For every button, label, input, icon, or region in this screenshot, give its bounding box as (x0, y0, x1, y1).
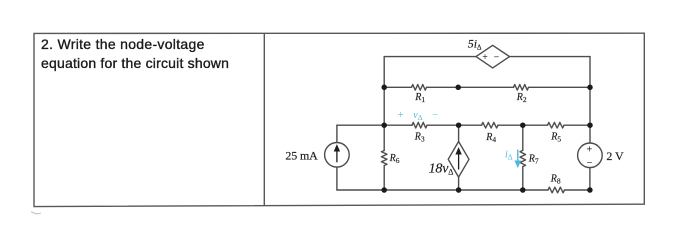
wire rail3 segment c (498, 124, 548, 126)
resistor R5 (548, 122, 565, 128)
wire R6 branch top (383, 125, 385, 150)
svg-text:iΔ: iΔ (505, 150, 513, 162)
wire rail2 segment b (427, 86, 514, 88)
wire right vertical upper (589, 57, 591, 143)
wire bottom rail left (337, 189, 548, 191)
junction node rail2 mid (455, 85, 461, 91)
wire top rail left (384, 56, 476, 58)
wire 18vΔ branch bottom (458, 177, 460, 190)
wire rail3 segment d (564, 124, 590, 126)
current source I1 25 mA circle (325, 143, 350, 168)
svg-text:2 V: 2 V (606, 149, 624, 163)
resistor R6 (381, 151, 387, 166)
svg-text:18vΔ: 18vΔ (429, 162, 454, 177)
svg-text:R7: R7 (528, 153, 539, 165)
svg-text:25 mA: 25 mA (285, 149, 318, 163)
svg-text:R5: R5 (550, 131, 561, 143)
wire rail3 segment a (337, 124, 412, 126)
junction node rail3 right (587, 122, 593, 128)
wire rail3 segment b (427, 124, 482, 126)
wire rail2 segment c (529, 86, 591, 88)
junction node bottom R7 (520, 187, 526, 193)
wire 2V branch bottom (589, 168, 591, 190)
svg-text:R1: R1 (414, 92, 425, 104)
wire R7 branch bottom (522, 167, 524, 190)
svg-text:−: − (587, 158, 593, 169)
svg-text:+: + (482, 53, 487, 63)
problem statement text (41, 35, 281, 73)
wire rail2 segment a (384, 86, 411, 88)
junction node bottom R6 (381, 187, 387, 193)
wire R6 branch bottom (383, 166, 385, 190)
resistor R3 (412, 122, 427, 128)
junction node rail3 R6 top (381, 122, 387, 128)
svg-text:R4: R4 (485, 132, 496, 144)
svg-text:R8: R8 (550, 174, 561, 186)
dep. current source U2 18vΔ diamond (448, 142, 469, 178)
resistor R7 (520, 150, 526, 166)
wire R7 branch top (522, 125, 524, 150)
resistor R4 (482, 122, 499, 128)
arrow of 18vΔ source (456, 149, 460, 170)
wire 25mA branch top (336, 125, 338, 142)
arrow of 25 mA source (335, 146, 339, 163)
resistor R8 (548, 187, 565, 193)
svg-text:−: − (432, 110, 438, 121)
wire left vertical (383, 57, 385, 126)
junction node rail3 18vΔ top (456, 122, 462, 128)
page curl mark bottom-left (31, 212, 41, 214)
svg-text:−: − (494, 53, 499, 63)
junction node bottom right (587, 187, 593, 193)
wire bottom rail right (565, 189, 590, 191)
dep. voltage source U1 5iΔ diamond (476, 45, 510, 68)
svg-text:+: + (398, 110, 404, 121)
iΔ current arrow (cyan) (516, 150, 521, 167)
junction node rail2 right (587, 85, 593, 91)
svg-text:R6: R6 (389, 153, 400, 165)
outer table box (34, 33, 644, 206)
wire 25mA branch bottom (336, 167, 338, 190)
resistor R2 (514, 85, 529, 91)
junction node rail2 left (381, 85, 387, 91)
svg-text:vΔ: vΔ (413, 110, 422, 122)
svg-text:+: + (587, 145, 593, 156)
svg-text:R2: R2 (516, 92, 527, 104)
wire 18vΔ branch top (458, 125, 460, 141)
junction node bottom 18vΔ (456, 187, 462, 193)
svg-text:R3: R3 (414, 132, 425, 144)
junction node rail3 R7 top (520, 122, 526, 128)
svg-text:5iΔ: 5iΔ (468, 36, 482, 51)
voltage source V1 2V circle (578, 143, 603, 168)
wire top rail right (510, 56, 591, 58)
cell divider (263, 33, 265, 205)
resistor R1 (412, 85, 427, 91)
